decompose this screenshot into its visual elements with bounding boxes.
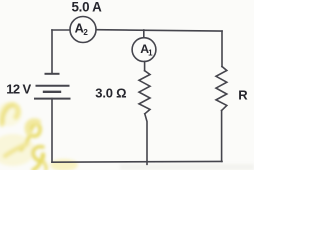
- wire left vertical lower: [51, 99, 53, 163]
- wire right vertical upper: [221, 31, 223, 66]
- resistor R zigzag: [216, 67, 227, 111]
- wire top-right horizontal: [96, 30, 222, 31]
- resistor 3.0 ohm zigzag: [139, 71, 150, 114]
- battery B1 12 V plates: [35, 74, 70, 99]
- ammeter A2 circle: [70, 17, 96, 43]
- wire bottom horizontal: [52, 160, 222, 163]
- ammeter A1 circle: [132, 38, 156, 62]
- wire A1 to resistor: [144, 62, 146, 71]
- svg-text:3.0 Ω: 3.0 Ω: [95, 86, 126, 101]
- wire middle lower: [145, 114, 147, 165]
- wire top-left horizontal: [52, 29, 70, 31]
- svg-text:2: 2: [83, 28, 88, 37]
- wire left vertical upper: [51, 30, 53, 74]
- svg-text:R: R: [238, 87, 248, 102]
- svg-text:5.0 A: 5.0 A: [72, 0, 103, 14]
- svg-text:1: 1: [148, 48, 153, 57]
- wire middle stub from top: [143, 30, 145, 38]
- svg-text:12 V: 12 V: [6, 81, 31, 96]
- wire right vertical lower: [221, 111, 223, 162]
